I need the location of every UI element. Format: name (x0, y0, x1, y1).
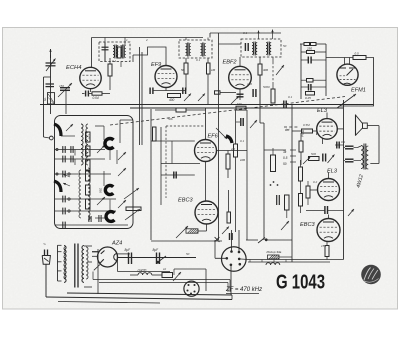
svg-text:2: 2 (145, 38, 148, 42)
svg-text:3k: 3k (283, 150, 287, 154)
svg-text:EBF2: EBF2 (223, 60, 238, 66)
svg-text:EF9: EF9 (151, 62, 161, 68)
svg-text:250: 250 (306, 47, 312, 51)
svg-text:LW20: LW20 (138, 269, 147, 273)
svg-text:EBC3: EBC3 (178, 198, 194, 204)
svg-text:0.1: 0.1 (112, 59, 117, 63)
svg-text:PR3k: PR3k (301, 129, 306, 137)
svg-text:0.1: 0.1 (341, 140, 346, 144)
svg-text:0.1: 0.1 (243, 31, 248, 35)
svg-text:50: 50 (181, 68, 185, 72)
svg-text:G 1043: G 1043 (276, 272, 325, 294)
svg-text:0.5: 0.5 (355, 52, 360, 56)
svg-text:EL3: EL3 (327, 169, 338, 175)
svg-text:EFM1: EFM1 (351, 88, 366, 94)
svg-text:EBC3: EBC3 (300, 222, 316, 228)
svg-text:50k: 50k (168, 117, 173, 121)
svg-text:150: 150 (59, 84, 64, 88)
svg-text:~: ~ (43, 242, 46, 248)
svg-text:1k: 1k (163, 267, 167, 271)
svg-text:150: 150 (88, 134, 92, 139)
svg-text:2M: 2M (230, 147, 236, 151)
svg-text:0.1: 0.1 (196, 58, 201, 62)
svg-text:100: 100 (237, 102, 242, 106)
svg-text:0.5M: 0.5M (303, 123, 310, 127)
svg-text:100: 100 (240, 158, 245, 162)
svg-text:250: 250 (99, 188, 103, 193)
svg-text:ZF = 470 kHz: ZF = 470 kHz (225, 287, 262, 293)
svg-text:0.1: 0.1 (240, 139, 245, 143)
svg-text:Pickup 33a: Pickup 33a (267, 250, 282, 254)
svg-text:0.04: 0.04 (93, 96, 99, 100)
svg-text:0.1: 0.1 (288, 95, 293, 99)
svg-text:5000: 5000 (263, 85, 270, 89)
svg-text:400: 400 (169, 98, 175, 102)
svg-text:EL3: EL3 (317, 108, 328, 114)
svg-text:0.25: 0.25 (305, 96, 311, 100)
svg-text:AZ4: AZ4 (111, 240, 122, 246)
svg-text:300: 300 (88, 148, 92, 153)
svg-text:500: 500 (311, 152, 316, 156)
svg-text:300: 300 (263, 68, 268, 72)
svg-text:0.1: 0.1 (209, 157, 214, 161)
svg-text:EF6: EF6 (208, 134, 219, 140)
svg-text:150: 150 (321, 244, 326, 248)
svg-text:50: 50 (283, 44, 287, 48)
svg-text:ECH4: ECH4 (66, 65, 81, 71)
svg-text:0.2: 0.2 (313, 180, 318, 184)
svg-text:GL: GL (43, 97, 47, 101)
svg-text:100: 100 (247, 82, 252, 86)
svg-text:1M: 1M (211, 68, 216, 72)
svg-text:0.5: 0.5 (283, 156, 288, 160)
svg-text:50: 50 (283, 162, 287, 166)
svg-text:det: det (285, 128, 290, 132)
svg-text:50: 50 (186, 252, 190, 256)
